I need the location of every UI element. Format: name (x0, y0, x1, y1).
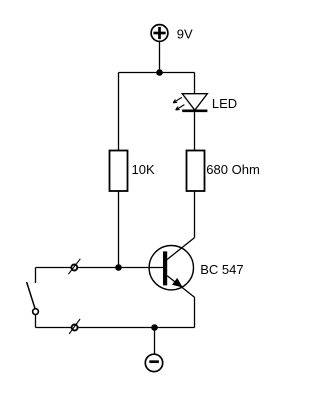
label 680 Ohm (206, 162, 259, 177)
wire top rail to LED anode (194, 73, 196, 95)
battery positive terminal +9V (151, 25, 168, 42)
resistor 680 Ohm (187, 151, 205, 192)
wire left branch down to 10K (118, 73, 120, 152)
svg-text:LED: LED (212, 96, 237, 111)
wire emitter to bottom rail (194, 297, 196, 327)
wire top horizontal rail (119, 72, 195, 74)
switch S1 (27, 268, 39, 328)
wire LED cathode to 680 Ohm (194, 111, 196, 151)
battery negative terminal (145, 354, 162, 371)
label BC 547 (200, 262, 243, 277)
node base junction (115, 264, 122, 271)
node top junction (156, 69, 163, 76)
wire battery+ to top junction (159, 41, 161, 72)
resistor 10K (110, 151, 128, 192)
transistor Q1 BC 547 (149, 238, 194, 298)
svg-text:680 Ohm: 680 Ohm (206, 162, 259, 177)
svg-text:BC 547: BC 547 (200, 262, 243, 277)
svg-text:9V: 9V (177, 27, 193, 42)
wire 680 Ohm to collector (194, 191, 196, 238)
LED D1 (173, 94, 207, 111)
touch contact bottom (69, 319, 80, 334)
wire base rail (switch to transistor base) (36, 267, 164, 269)
touch contact top (68, 259, 80, 274)
node bottom junction (151, 324, 158, 331)
svg-text:10K: 10K (132, 162, 155, 177)
wire 10K to base junction (118, 191, 120, 268)
label 9V (177, 27, 193, 42)
label 10K (132, 162, 155, 177)
label LED (212, 96, 237, 111)
wire bottom rail (36, 327, 195, 329)
wire bottom junction to battery- (154, 328, 156, 355)
